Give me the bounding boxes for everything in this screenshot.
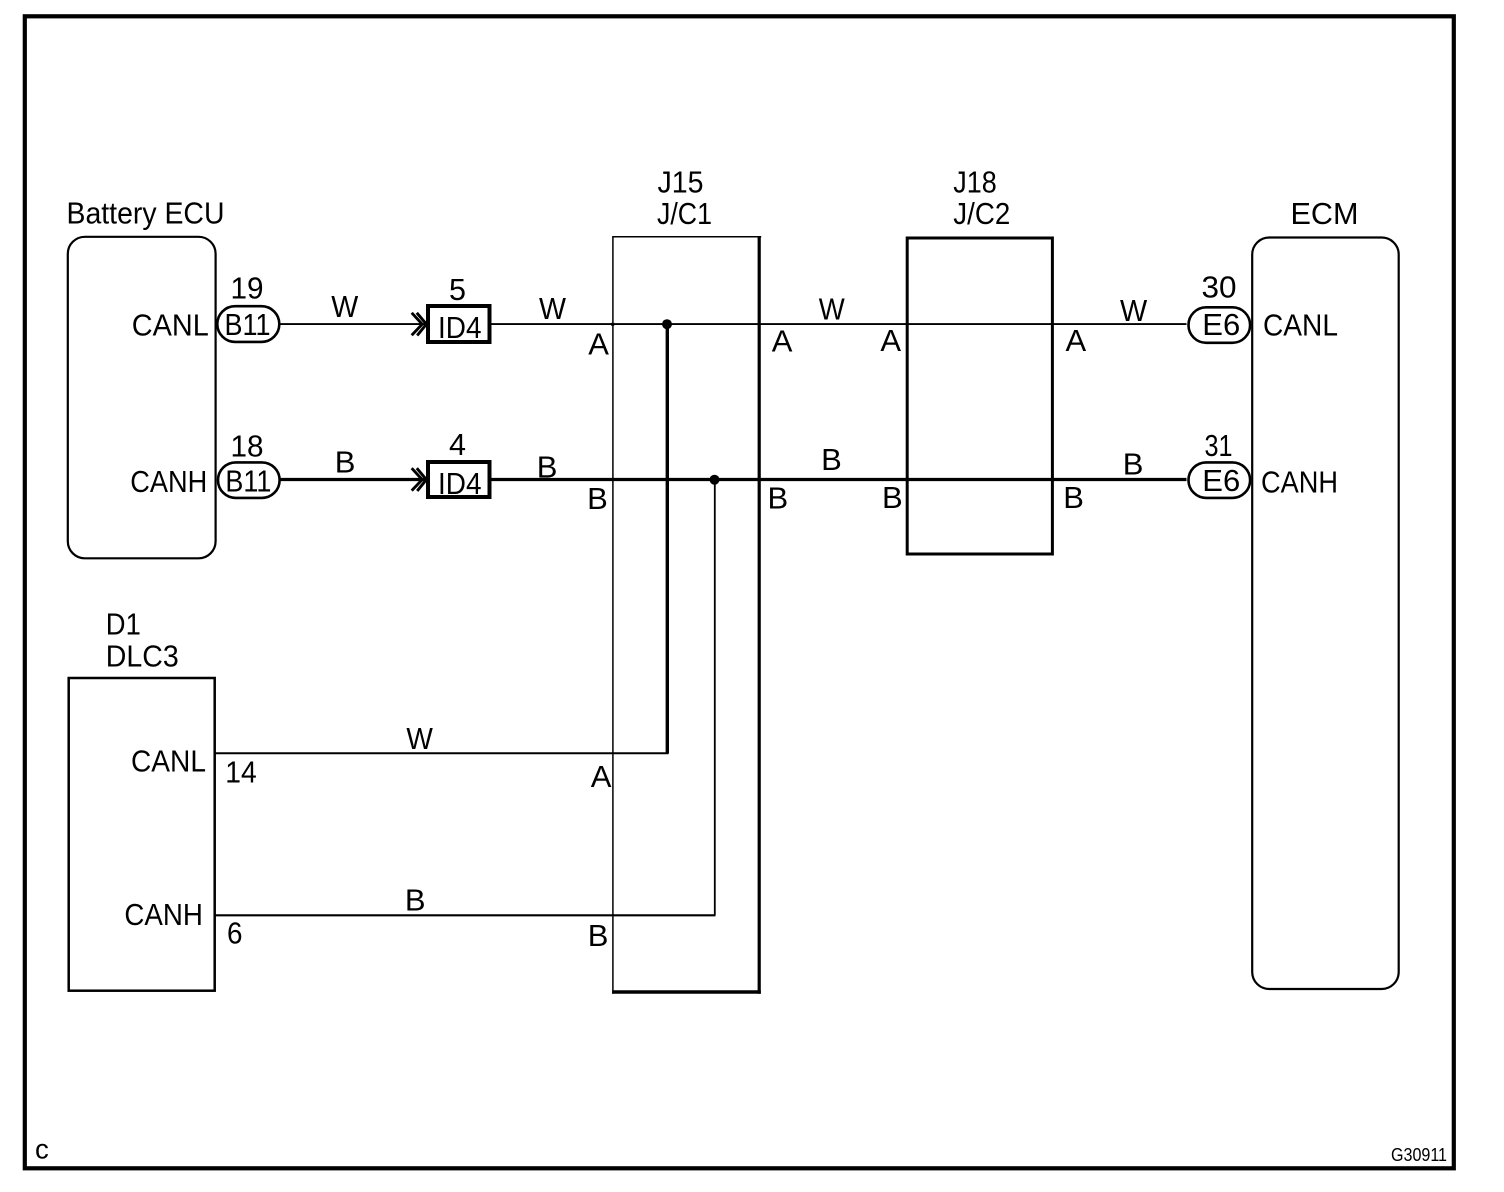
svg-text:B11: B11 (225, 463, 271, 498)
svg-text:B: B (882, 480, 903, 515)
svg-text:18: 18 (231, 429, 264, 464)
junction block J18 J/C2 box (907, 238, 1052, 554)
svg-text:DLC3: DLC3 (106, 639, 179, 674)
svg-text:E6: E6 (1202, 463, 1240, 498)
svg-text:J18: J18 (953, 165, 997, 200)
svg-text:A: A (880, 323, 901, 358)
DLC3 pin name CANL (131, 743, 206, 778)
net label A (J/C1 right) (772, 323, 793, 358)
pin number 6 (227, 915, 243, 950)
svg-text:30: 30 (1202, 270, 1237, 305)
svg-text:W: W (539, 291, 567, 326)
svg-text:CANL: CANL (132, 307, 209, 342)
svg-text:W: W (406, 721, 433, 756)
wire color label B 3 (821, 442, 842, 477)
svg-text:4: 4 (449, 427, 466, 462)
ECM pin name CANH (1261, 465, 1338, 500)
page index c (35, 1133, 49, 1164)
wire CANH B (Battery ECU to ECM) (280, 478, 1187, 481)
wire DLC3 CANL W (215, 752, 669, 754)
net label B (DLC3 wire) (588, 918, 609, 953)
wire color label B (DLC3 CANH) (405, 883, 426, 918)
svg-text:CANH: CANH (1261, 465, 1338, 500)
Battery ECU pin name CANL (132, 307, 209, 342)
net label B (J/C2 right) (1063, 480, 1084, 515)
svg-text:CANL: CANL (1263, 308, 1338, 343)
svg-text:B: B (405, 883, 426, 918)
svg-text:CANL: CANL (131, 743, 206, 778)
wire color label W 4 (1120, 293, 1148, 328)
connector E6 pin 31 (1189, 462, 1251, 498)
Battery ECU block (68, 237, 216, 559)
svg-text:W: W (331, 289, 359, 324)
wire color label B 4 (1123, 446, 1144, 481)
svg-text:B: B (1123, 446, 1144, 481)
pin number 14 (225, 755, 256, 790)
svg-text:B11: B11 (225, 307, 271, 342)
ECM label (1291, 196, 1359, 231)
figure number G30911 (1391, 1145, 1447, 1165)
wire color label B 2 (537, 449, 558, 484)
svg-text:A: A (772, 323, 793, 358)
Battery ECU label (67, 196, 225, 231)
net label A (J/C2 left) (880, 323, 901, 358)
DLC3 label D1 (106, 607, 179, 674)
svg-text:B: B (537, 449, 558, 484)
junction block J18 label (953, 165, 1010, 231)
svg-text:5: 5 (449, 272, 466, 307)
svg-text:A: A (591, 759, 612, 794)
connector B11 pin 19 (217, 306, 279, 342)
net label B (J/C1 right) (768, 481, 789, 516)
net label A (J/C1 left) (588, 327, 609, 362)
svg-text:E6: E6 (1202, 307, 1240, 342)
Battery ECU pin name CANH (130, 464, 207, 499)
wire DLC3 CANH B (215, 914, 715, 916)
pin number 5 (449, 272, 466, 307)
wire color label B 1 (335, 445, 356, 480)
DLC3 block (69, 678, 215, 991)
pin number 4 (449, 427, 466, 462)
connector E6 pin 30 (1189, 307, 1251, 343)
splice chevron pin 4 (412, 468, 427, 491)
svg-text:CANH: CANH (124, 897, 202, 932)
svg-text:B: B (768, 481, 789, 516)
wire color label W (DLC3 CANL) (406, 721, 433, 756)
svg-text:CANH: CANH (130, 464, 207, 499)
wire color label W 1 (331, 289, 359, 324)
junction block J15 J/C1 box (612, 236, 761, 994)
svg-text:Battery ECU: Battery ECU (67, 196, 225, 231)
svg-text:B: B (588, 918, 609, 953)
ECM block (1252, 238, 1399, 990)
svg-text:D1: D1 (106, 607, 141, 642)
svg-text:c: c (35, 1133, 49, 1164)
svg-text:A: A (1066, 323, 1087, 358)
wire CANL W (Battery ECU to ECM) (280, 323, 1187, 325)
svg-text:A: A (588, 327, 609, 362)
DLC3 pin name CANH (124, 897, 202, 932)
svg-text:ID4: ID4 (438, 310, 482, 345)
svg-text:ID4: ID4 (438, 466, 482, 501)
net label B (J/C1 left) (587, 481, 608, 516)
wire color label W 2 (539, 291, 567, 326)
svg-text:19: 19 (231, 271, 264, 306)
splice chevron pin 5 (412, 313, 427, 336)
svg-text:W: W (1120, 293, 1148, 328)
svg-text:6: 6 (227, 915, 243, 950)
wire color label W 3 (819, 291, 846, 326)
net label B (J/C2 left) (882, 480, 903, 515)
junction connector ID4 (pin 4) (428, 462, 490, 501)
svg-text:ECM: ECM (1291, 196, 1359, 231)
pin number 18 (231, 429, 264, 464)
svg-text:B: B (821, 442, 842, 477)
pin number 19 (231, 271, 264, 306)
svg-text:B: B (335, 445, 356, 480)
svg-text:14: 14 (225, 755, 256, 790)
net label A (DLC3 wire) (591, 759, 612, 794)
junction dot node B (710, 475, 720, 485)
svg-text:31: 31 (1205, 428, 1233, 463)
pin number 31 (1205, 428, 1233, 463)
net label A (J/C2 right) (1066, 323, 1087, 358)
svg-text:J15: J15 (658, 165, 704, 200)
ECM pin name CANL (1263, 308, 1338, 343)
svg-text:B: B (1063, 480, 1084, 515)
junction block J15 label (657, 165, 712, 231)
vertical wire node B to DLC3 CANH (714, 480, 716, 916)
svg-text:G30911: G30911 (1391, 1145, 1447, 1165)
junction dot node A (662, 319, 672, 329)
svg-text:B: B (587, 481, 608, 516)
svg-text:W: W (819, 291, 846, 326)
small dot at wire A crossing J/C1 left border (611, 323, 614, 326)
svg-text:J/C2: J/C2 (953, 196, 1010, 231)
vertical wire node A to DLC3 CANL (666, 324, 669, 753)
connector B11 pin 18 (218, 462, 280, 498)
pin number 30 (1202, 270, 1237, 305)
junction connector ID4 (pin 5) (428, 306, 490, 345)
svg-text:J/C1: J/C1 (657, 196, 712, 231)
